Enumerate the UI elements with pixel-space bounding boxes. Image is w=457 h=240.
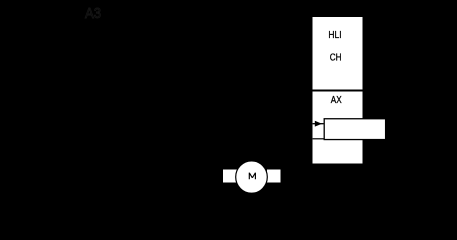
svg-text:A3: A3: [85, 5, 101, 21]
section divider line: [313, 90, 363, 92]
terminal TL (motor left block): [223, 169, 237, 182]
label HLI: [328, 29, 341, 40]
svg-text:AX: AX: [331, 94, 342, 105]
svg-text:HLI: HLI: [328, 29, 341, 40]
label A3 (faint caption top-left): [85, 5, 101, 21]
box B1 (output stage): [324, 119, 385, 140]
block U1 (controller column): [313, 17, 363, 164]
label CH: [330, 51, 342, 62]
label M: [249, 173, 255, 180]
wire W2 (lower connection): [313, 138, 325, 140]
label AX: [331, 94, 342, 105]
terminal TR (motor right block): [267, 169, 280, 182]
wire W1 (input line with arrowhead): [313, 121, 324, 127]
motor M1: [236, 161, 268, 193]
svg-text:CH: CH: [330, 51, 342, 62]
